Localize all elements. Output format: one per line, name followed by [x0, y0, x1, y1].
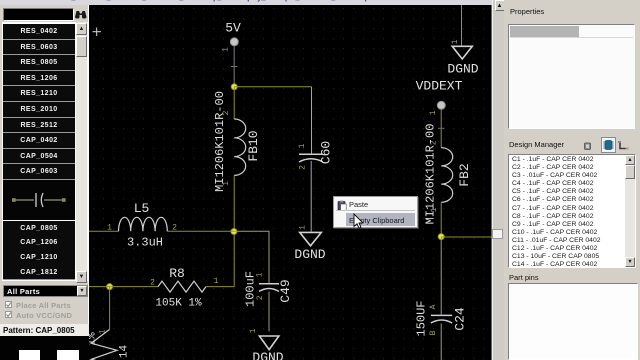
svg-text:DGND: DGND — [252, 350, 283, 360]
wire C24 down — [440, 324, 442, 360]
node B junction — [231, 229, 237, 235]
footprint preview — [0, 336, 89, 360]
splitter strip — [492, 0, 505, 360]
right panel — [504, 0, 640, 360]
wire node C down to C24 — [440, 237, 442, 315]
ground DGND top right — [452, 46, 472, 59]
wire node 1 down — [109, 287, 111, 330]
svg-text:FB2: FB2 — [457, 163, 472, 186]
left sidebar — [0, 5, 89, 360]
svg-text:1: 1 — [222, 47, 231, 52]
binoculars icon — [74, 9, 87, 20]
wire node B to L5 — [167, 230, 234, 232]
svg-text:L5: L5 — [134, 201, 150, 216]
svg-text:2: 2 — [299, 165, 308, 170]
list scrollbar — [76, 22, 87, 281]
svg-text:DGND: DGND — [447, 62, 478, 77]
top menu strip — [0, 0, 492, 5]
svg-text:A: A — [429, 304, 438, 309]
search box — [3, 8, 74, 21]
wire FB2 to node C — [440, 202, 442, 236]
mouse cursor — [352, 213, 364, 230]
paste icon — [337, 200, 347, 211]
properties box — [508, 24, 635, 129]
svg-text:5V: 5V — [225, 21, 241, 36]
wire 5V pin — [233, 46, 235, 87]
svg-text:2: 2 — [150, 279, 155, 288]
wire C60 to ground — [310, 161, 312, 232]
svg-text:1: 1 — [430, 207, 439, 212]
svg-text:1: 1 — [214, 277, 219, 286]
svg-text:2: 2 — [172, 224, 177, 233]
wire R8 to node B — [206, 234, 234, 287]
origin crosshair — [93, 28, 102, 37]
svg-text:3.3uH: 3.3uH — [127, 236, 163, 250]
svg-text:100uF: 100uF — [244, 271, 258, 307]
wire node A to C60 branch — [234, 86, 311, 88]
svg-text:1: 1 — [249, 328, 258, 333]
wire node C to right edge — [441, 236, 491, 238]
svg-text:DGND: DGND — [294, 247, 325, 262]
wire C49 to ground — [268, 292, 270, 332]
ground DGND under C49 — [259, 336, 279, 350]
ferrite bead FB2 — [441, 148, 453, 203]
wire node B to C49 — [234, 231, 269, 283]
node C junction — [438, 234, 444, 240]
svg-text:1: 1 — [429, 110, 438, 115]
svg-text:C49: C49 — [278, 279, 293, 302]
checkbox Place All Parts — [5, 301, 12, 308]
ground DGND under C60 — [300, 232, 322, 245]
inductor L5 — [119, 217, 168, 231]
svg-text:FB10: FB10 — [246, 130, 261, 161]
svg-text:R8: R8 — [169, 266, 185, 281]
svg-text:1: 1 — [107, 224, 112, 233]
wire FB10 to node B — [233, 175, 235, 231]
checkbox Auto VCC/GND — [5, 311, 12, 318]
svg-text:MI1206K101R-00: MI1206K101R-00 — [213, 91, 227, 192]
svg-text:1: 1 — [451, 39, 460, 44]
svg-text:1: 1 — [222, 181, 231, 186]
part preview pane — [3, 180, 75, 220]
part pins box — [508, 283, 638, 360]
node A junction — [231, 84, 237, 90]
All Parts combo — [3, 285, 88, 297]
top DGND pin wire — [461, 5, 463, 46]
node 1 junction — [107, 284, 113, 290]
wire node A down to FB10 — [233, 87, 235, 119]
resistor R8 — [158, 281, 206, 292]
wire to R8 — [89, 286, 158, 288]
svg-text:1: 1 — [298, 143, 307, 148]
design manager list — [508, 154, 636, 268]
wire L5 left lead — [89, 230, 119, 232]
list scrollbar — [625, 155, 635, 267]
svg-text:105K 1%: 105K 1% — [155, 298, 202, 310]
context menu — [333, 196, 418, 229]
svg-text:C24: C24 — [452, 307, 467, 331]
svg-text:VDDEXT: VDDEXT — [416, 79, 463, 94]
svg-text:1: 1 — [299, 225, 308, 230]
wire VDDEXT to FB2 — [440, 109, 442, 147]
svg-text:B: B — [429, 330, 438, 335]
parts list — [2, 22, 88, 281]
svg-text:C60: C60 — [319, 141, 334, 164]
toolbar icons — [583, 141, 593, 151]
svg-text:150UF: 150UF — [415, 300, 429, 336]
Pattern label — [0, 324, 89, 336]
svg-text:14: 14 — [119, 345, 131, 359]
